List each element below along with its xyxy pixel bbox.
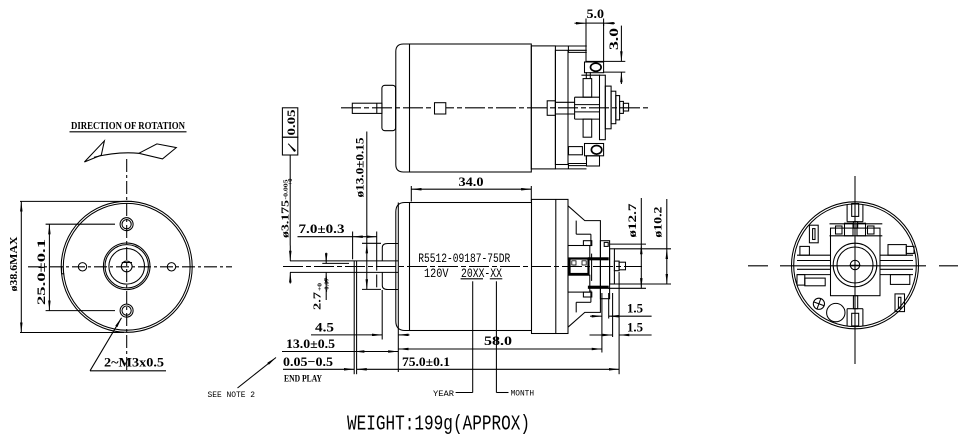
svg-text:3.0: 3.0 — [606, 28, 621, 50]
dim 58.0 dimension line — [398, 348, 602, 350]
bottom view rear ring — [610, 249, 615, 284]
dim 38.6MAX extension lines — [20, 200, 132, 202]
direction-of-rotation label — [70, 120, 187, 132]
rear central block — [831, 228, 881, 296]
bottom view housing ladder bottom — [576, 290, 591, 312]
bottom view shaft bottom line — [290, 271, 398, 273]
rear view crosshair horizontal — [748, 265, 958, 267]
svg-text:SEE NOTE 2: SEE NOTE 2 — [208, 391, 256, 400]
svg-text:MONTH: MONTH — [511, 389, 535, 398]
svg-text:1.5: 1.5 — [627, 301, 643, 316]
rear bottom slot — [847, 309, 863, 326]
bottom view sleeve bars — [588, 258, 608, 260]
dim dia12.7 extension lines — [610, 243, 646, 245]
top view end cap — [396, 44, 410, 172]
bottom view bearing — [570, 259, 589, 275]
horizontal centerline left view — [28, 266, 232, 268]
rear outer circle — [792, 202, 919, 329]
rear top slot — [847, 204, 863, 222]
svg-text:WEIGHT:199g(APPROX): WEIGHT:199g(APPROX) — [347, 414, 530, 437]
top view centerline — [341, 107, 650, 109]
svg-text:75.0±0.1: 75.0±0.1 — [402, 354, 450, 369]
bottom mounting hole — [120, 304, 133, 317]
flange notch — [62, 266, 65, 274]
top view shaft — [352, 103, 382, 113]
svg-text:ø38.6MAX: ø38.6MAX — [8, 236, 20, 291]
rear right step up — [888, 245, 906, 256]
top view hub lines — [555, 101, 574, 103]
top view lower step block — [569, 147, 583, 155]
rear right arm rails — [880, 255, 913, 274]
top view upper terminal strip — [586, 23, 604, 61]
rear left arm rails — [797, 255, 831, 274]
svg-text:R5512-09187-75DR: R5512-09187-75DR — [418, 252, 510, 266]
see note 2 leader — [238, 358, 277, 389]
rear right edge piece — [906, 246, 914, 253]
dim dia10.2 dimension line — [666, 199, 668, 249]
top view rear disc — [600, 75, 606, 140]
dim 34.0 dimension line — [411, 188, 531, 190]
svg-text:4.5: 4.5 — [315, 320, 335, 335]
svg-text:0.05−0.5: 0.05−0.5 — [283, 354, 334, 369]
rear extension lines — [601, 293, 603, 353]
top view upper ledge — [555, 46, 586, 52]
bottom view inner seam — [591, 254, 593, 281]
rear shaft flat — [850, 264, 861, 266]
bottom view shaft flat line — [322, 262, 349, 264]
top view bearing boss — [382, 85, 396, 130]
bottom view rear tip — [619, 262, 625, 270]
dim 2.7 lines — [325, 253, 327, 264]
rear slot bottom-right — [895, 294, 905, 312]
bottom view washer face — [376, 232, 378, 271]
top view upper ledge edge — [581, 74, 600, 76]
top view shaft step — [376, 103, 378, 113]
svg-text:-0.005: -0.005 — [283, 179, 290, 200]
svg-text:+0: +0 — [317, 283, 324, 291]
rear bottom stem — [853, 296, 857, 309]
top view lower ledge — [555, 164, 586, 169]
top view endcap block — [531, 46, 555, 169]
dim 34.0 extension lines — [410, 186, 412, 202]
dim dia13.0 reference line — [366, 132, 368, 244]
bottom view boss profile — [382, 244, 398, 290]
top mounting hole — [120, 218, 133, 231]
dim 7.0 dimension line — [298, 236, 353, 238]
dim 3.0 dimension line — [620, 26, 622, 62]
bottom view end bell seam — [555, 199, 557, 333]
svg-text:END PLAY: END PLAY — [284, 375, 322, 385]
svg-text:ø13.0±0.15: ø13.0±0.15 — [353, 138, 367, 198]
svg-text:1.5: 1.5 — [627, 319, 643, 334]
svg-text:5.0: 5.0 — [587, 6, 605, 21]
bottom view rear plate bump — [604, 242, 608, 246]
dim 3.0 extension lines — [604, 60, 626, 62]
svg-text:7.0±0.3: 7.0±0.3 — [299, 221, 346, 236]
rear top stem — [853, 222, 857, 228]
top view brush plate — [555, 50, 568, 164]
svg-text:13.0±0.5: 13.0±0.5 — [286, 336, 336, 351]
bottom view rear plate — [600, 241, 609, 299]
dim 5.0 dimension line — [575, 22, 587, 24]
dim 38.6MAX dimension line — [20, 201, 22, 332]
dim 7.0 extension line — [352, 232, 354, 260]
month leader — [496, 281, 534, 398]
dim 5.0 extension lines — [585, 19, 587, 27]
top view rear nub — [623, 103, 628, 111]
top view rear stub — [620, 101, 624, 113]
top view rear ring3 — [611, 91, 616, 124]
year leader — [433, 281, 473, 399]
motor outer flange circle — [61, 201, 192, 332]
dim 4.5 dimension line — [311, 334, 382, 336]
svg-text:0.05: 0.05 — [284, 110, 298, 136]
dim dia10.2 extension lines — [614, 248, 671, 250]
svg-text:ø3.175: ø3.175 — [280, 199, 292, 238]
bottom view end cap — [396, 203, 410, 331]
bottom view shaft tip endplay lines — [353, 261, 355, 374]
rear slot top-left — [809, 225, 818, 243]
bottom view mounting face line — [397, 203, 399, 373]
dim dia3.175 lines — [289, 246, 291, 261]
rear left brush box — [805, 278, 825, 286]
svg-text:25.0±0.1: 25.0±0.1 — [34, 239, 48, 305]
dim endplay dimension line — [283, 368, 354, 370]
svg-text:ø10.2: ø10.2 — [651, 207, 665, 238]
svg-text:58.0: 58.0 — [484, 333, 512, 348]
svg-text:ø12.7: ø12.7 — [625, 204, 639, 238]
label underlines — [461, 278, 483, 280]
dim 13.0 dimension line — [282, 351, 354, 353]
rear left step up — [800, 246, 810, 255]
svg-text:2~M3x0.5: 2~M3x0.5 — [104, 355, 165, 370]
rear left step down — [797, 275, 805, 286]
center boss circles — [103, 243, 150, 290]
bottom view brush housing — [568, 206, 600, 327]
dim 1.5 upper — [590, 315, 602, 317]
dim 75.0 dimension line — [357, 368, 619, 370]
right side hole — [167, 263, 175, 271]
rear hole circle — [827, 303, 845, 321]
bottom view step below — [583, 292, 591, 297]
label 2~M3x0.5 leader — [90, 318, 122, 371]
top view upper terminal hole band — [585, 62, 604, 73]
bottom view centerline — [283, 266, 642, 268]
dim 1.5 lower — [590, 334, 613, 336]
rear right step down — [890, 275, 909, 285]
bottom view end bell — [532, 199, 569, 333]
bottom view rear hub — [614, 261, 619, 271]
top view left notch — [547, 101, 555, 116]
bottom view cavity below bearing — [568, 275, 590, 292]
top view lower terminal hole band — [585, 144, 604, 156]
top view upper terminal hole — [591, 63, 602, 71]
rear view crosshair vertical — [854, 176, 856, 364]
rear bearing circles — [833, 243, 877, 287]
top view cross bracket — [575, 72, 600, 160]
bottom view step above — [583, 241, 591, 246]
bottom view housing ladder top — [576, 221, 591, 247]
top view can body — [410, 44, 532, 172]
dim dia12.7 dimension line — [640, 198, 642, 244]
svg-text:YEAR: YEAR — [433, 390, 454, 399]
bottom view can body — [410, 203, 532, 331]
tolerance leader — [289, 155, 291, 246]
svg-text:34.0: 34.0 — [459, 174, 484, 189]
top view rear washer — [616, 96, 620, 120]
left side hole — [78, 263, 86, 271]
vertical centerline left view — [126, 159, 128, 372]
dim 25.0 dimension line — [48, 224, 50, 310]
dim 4.5 extension line — [381, 290, 383, 340]
svg-text:2.7: 2.7 — [312, 291, 324, 310]
top view vent square — [435, 103, 446, 114]
rear screw — [812, 297, 826, 311]
top view lower terminal step — [587, 156, 600, 166]
svg-text:DIRECTION OF ROTATION: DIRECTION OF ROTATION — [71, 120, 185, 132]
rotation arrow — [84, 141, 104, 162]
bottom view cavity above bearing — [568, 246, 590, 260]
rear top bracket band — [830, 223, 883, 236]
svg-text:120V: 120V — [424, 267, 449, 281]
top view lower terminal hole — [591, 146, 601, 155]
bottom view shaft top line — [290, 260, 398, 262]
runout symbol — [288, 144, 295, 152]
top view rear ring2 — [605, 86, 611, 129]
dim 25.0 extension lines — [46, 223, 115, 225]
svg-text:-0.07: -0.07 — [324, 277, 331, 292]
tolerance frame box — [282, 108, 297, 137]
shaft circle with flat — [121, 261, 132, 272]
